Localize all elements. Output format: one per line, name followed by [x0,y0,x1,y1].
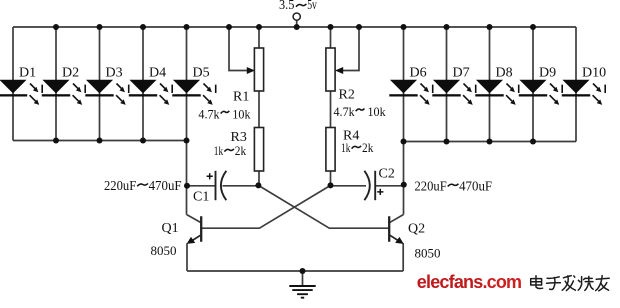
svg-text:4.7k: 4.7k [334,104,356,119]
svg-text:D3: D3 [106,66,123,81]
svg-text:8050: 8050 [151,243,177,258]
svg-text:1k: 1k [341,140,351,155]
svg-text:D1: D1 [19,66,36,81]
svg-text:2k: 2k [235,143,247,158]
svg-text:8050: 8050 [415,245,441,260]
svg-text:10k: 10k [232,106,251,121]
svg-text:C1: C1 [193,189,209,204]
svg-text:10k: 10k [368,104,387,119]
svg-text:470uF: 470uF [459,179,492,194]
svg-text:D9: D9 [539,66,556,81]
svg-text:D7: D7 [453,66,470,81]
svg-text:2k: 2k [362,140,374,155]
svg-text:D8: D8 [496,66,513,81]
svg-text:D2: D2 [62,66,79,81]
svg-text:470uF: 470uF [149,178,182,193]
svg-text:D10: D10 [582,66,606,81]
svg-text:220uF: 220uF [415,179,448,194]
svg-text:D5: D5 [193,66,210,81]
svg-text:4.7k: 4.7k [198,106,220,121]
svg-text:Q1: Q1 [162,221,179,236]
svg-text:elecfans.com: elecfans.com [417,272,521,292]
svg-text:5v: 5v [307,0,317,12]
svg-text:Q2: Q2 [408,222,425,237]
svg-text:220uF: 220uF [104,178,137,193]
svg-text:R1: R1 [233,90,249,105]
svg-text:D6: D6 [410,66,427,81]
svg-text:1k: 1k [214,143,224,158]
svg-text:3.5: 3.5 [279,0,295,12]
svg-text:R2: R2 [339,88,355,103]
svg-text:C2: C2 [379,167,395,182]
svg-text:D4: D4 [149,66,166,81]
